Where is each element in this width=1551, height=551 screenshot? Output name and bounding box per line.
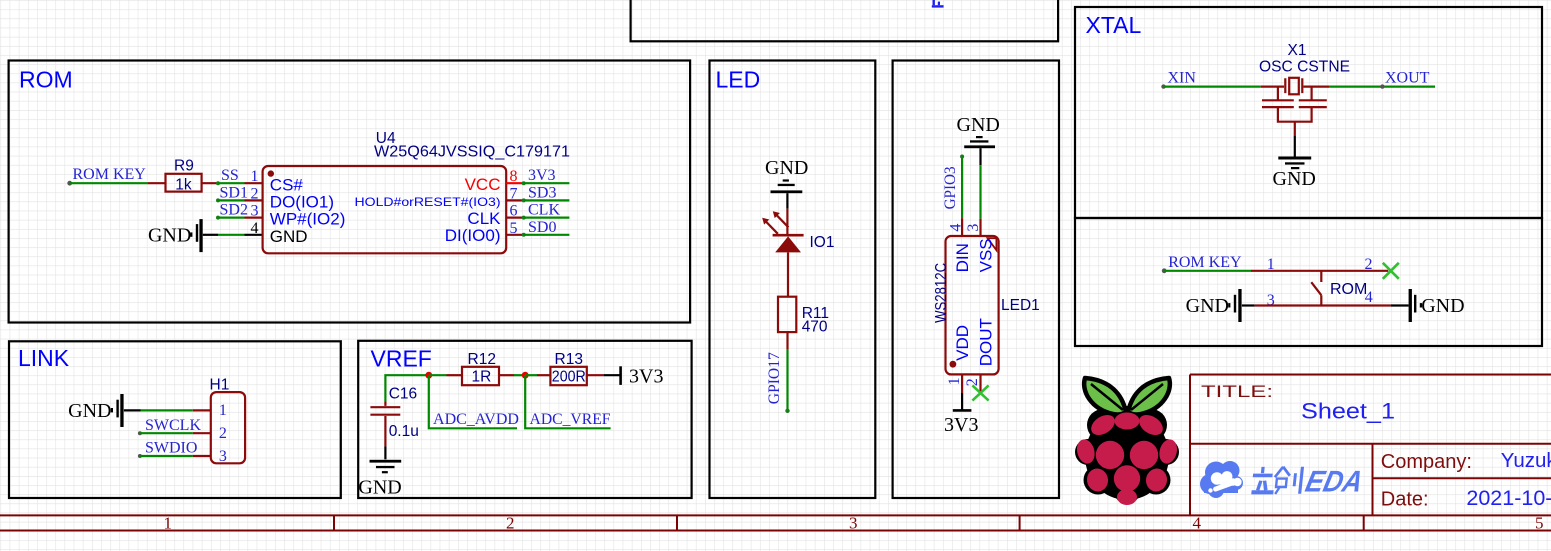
svg-text:VSS: VSS bbox=[977, 238, 996, 272]
wire switch pin1 (maroon) bbox=[1251, 270, 1388, 272]
pin 1 stub LED1 (bottom) bbox=[961, 374, 963, 393]
section box VREF bbox=[358, 341, 691, 498]
svg-text:ADC_VREF: ADC_VREF bbox=[530, 411, 611, 428]
section box XTAL bbox=[1075, 7, 1542, 218]
svg-text:C16: C16 bbox=[389, 385, 417, 402]
wire junction1 to R12 (green then red) bbox=[429, 374, 447, 376]
section box ROM KEY switch bbox=[1075, 218, 1542, 346]
wire junction2 to R13 bbox=[525, 374, 537, 376]
wire green-to-red segment into R9 bbox=[148, 182, 166, 184]
svg-text:WP#(IO2): WP#(IO2) bbox=[270, 210, 346, 229]
sheet frame bottom lines bbox=[0, 515, 1551, 530]
svg-text:4: 4 bbox=[1365, 289, 1373, 306]
section box ROM bbox=[9, 61, 691, 323]
wire LED to R11 bbox=[787, 252, 789, 296]
switch ROM bbox=[1311, 271, 1321, 306]
pin 1 stub U4 bbox=[245, 182, 263, 184]
wire GND to LED (maroon) bbox=[786, 209, 788, 235]
title block border bbox=[1190, 375, 1551, 516]
svg-text:R9: R9 bbox=[174, 157, 194, 174]
wire SD2 start dot bbox=[216, 216, 220, 220]
pin 8 stub U4 (red) bbox=[506, 182, 524, 184]
wire XOUT label dot bbox=[1380, 84, 1384, 88]
svg-text:Sheet_1: Sheet_1 bbox=[1301, 399, 1395, 424]
svg-text:GND: GND bbox=[358, 476, 401, 498]
sheet frame column ticks bbox=[334, 515, 1364, 530]
wire GPIO17 end dot bbox=[785, 409, 789, 413]
svg-text:2: 2 bbox=[219, 425, 227, 442]
ground GND (LINK box, pointing left) bbox=[68, 394, 123, 427]
wire CLK (green) bbox=[524, 217, 570, 219]
wire GND pin4 (green) bbox=[218, 234, 245, 236]
svg-text:5: 5 bbox=[1535, 513, 1544, 532]
resistor R13 bbox=[550, 367, 586, 385]
capacitor C16 stub (green to red) bbox=[384, 401, 386, 406]
svg-text:0.1u: 0.1u bbox=[389, 423, 419, 440]
svg-text:GND: GND bbox=[765, 157, 808, 179]
svg-text:GND: GND bbox=[957, 114, 1000, 136]
node SS junction dot bbox=[216, 181, 220, 185]
pin 2 stub H1 bbox=[193, 432, 211, 434]
ground GND (LED box, pointing up) bbox=[765, 157, 808, 193]
svg-text:W25Q64JVSSIQ_C179171: W25Q64JVSSIQ_C179171 bbox=[374, 143, 570, 160]
wire SWDIO (green) bbox=[140, 455, 193, 457]
svg-text:VREF: VREF bbox=[371, 345, 432, 371]
ground GND (switch box left, pointing left) bbox=[1186, 289, 1242, 322]
svg-text:1: 1 bbox=[946, 377, 963, 385]
wire junction1 down (green) bbox=[429, 375, 517, 428]
svg-text:CLK: CLK bbox=[467, 209, 501, 228]
pin 3 stub LED1 bbox=[979, 219, 981, 236]
svg-text:GND: GND bbox=[148, 224, 191, 246]
wire CLK start dot bbox=[522, 216, 526, 220]
resistor R12 bbox=[462, 367, 499, 385]
svg-text:H1: H1 bbox=[210, 377, 230, 394]
svg-text:GND: GND bbox=[1273, 168, 1316, 190]
wire XIN (green) bbox=[1164, 85, 1261, 87]
svg-text:SWCLK: SWCLK bbox=[145, 417, 201, 434]
net label F (vertical, cut off) bbox=[932, 0, 944, 8]
svg-text:SD2: SD2 bbox=[220, 202, 248, 219]
pin 6 stub U4 bbox=[506, 217, 524, 219]
wire R9 to SS node bbox=[202, 182, 218, 184]
svg-text:SS: SS bbox=[221, 167, 239, 184]
no-connect X on pin 2 bbox=[1383, 263, 1399, 279]
svg-text:R12: R12 bbox=[468, 351, 496, 368]
svg-text:X1: X1 bbox=[1288, 42, 1307, 59]
pin 5 stub U4 bbox=[506, 234, 524, 236]
svg-text:R13: R13 bbox=[555, 351, 583, 368]
LED IO1 symbol bbox=[762, 211, 803, 252]
svg-text:ROM: ROM bbox=[19, 66, 73, 92]
wire SD1 start dot bbox=[216, 198, 220, 202]
wire GND right (black) bbox=[1391, 304, 1409, 306]
svg-text:2: 2 bbox=[251, 185, 259, 202]
svg-text:ROM: ROM bbox=[1330, 281, 1367, 298]
svg-text:DOUT: DOUT bbox=[977, 318, 996, 366]
svg-text:5: 5 bbox=[510, 220, 518, 237]
svg-text:1: 1 bbox=[251, 168, 259, 185]
svg-text:470: 470 bbox=[802, 318, 828, 335]
wire GND stem (black) bbox=[979, 148, 981, 165]
wire switch pin3-4 (maroon) bbox=[1255, 304, 1391, 306]
wire 3V3 start dot bbox=[522, 181, 526, 185]
pin 3 stub U4 bbox=[245, 217, 263, 219]
section box LINK bbox=[9, 341, 341, 498]
svg-text:2021-10-14: 2021-10-14 bbox=[1466, 486, 1551, 510]
wire GND to VSS pin (green) bbox=[979, 165, 981, 219]
wire pin1 to 3V3 (black) bbox=[961, 393, 963, 410]
svg-text:XTAL: XTAL bbox=[1086, 12, 1142, 38]
wire GPIO3 (green) bbox=[961, 156, 963, 218]
svg-text:7: 7 bbox=[510, 185, 518, 202]
wire SD0 start dot bbox=[522, 233, 526, 237]
svg-text:3V3: 3V3 bbox=[528, 167, 556, 184]
svg-text:TITLE:: TITLE: bbox=[1201, 382, 1273, 401]
node junction dot 1 (red) bbox=[425, 372, 432, 379]
pin 7 stub U4 bbox=[506, 199, 524, 201]
svg-text:CLK: CLK bbox=[528, 202, 560, 219]
svg-text:DI(IO0): DI(IO0) bbox=[445, 226, 501, 245]
pin 2 stub LED1 (bottom) bbox=[979, 374, 981, 393]
wire SS (green) bbox=[218, 182, 245, 184]
no-connect X on pin 2 bbox=[972, 385, 988, 400]
resistor R11 bbox=[778, 297, 796, 332]
pin 1 stub H1 bbox=[193, 409, 211, 411]
svg-text:ROM KEY: ROM KEY bbox=[1168, 254, 1242, 271]
svg-text:4: 4 bbox=[948, 224, 965, 232]
wire GPIO3 top dot bbox=[960, 155, 964, 159]
wire SD1 (green) bbox=[218, 199, 245, 201]
svg-text:1k: 1k bbox=[175, 176, 192, 193]
svg-text:GND: GND bbox=[270, 227, 308, 246]
pin 2 stub U4 bbox=[245, 199, 263, 201]
wire ROM KEY (green) bbox=[1164, 270, 1251, 272]
node junction dot 2 (red) bbox=[522, 372, 529, 379]
resistor R9 bbox=[166, 174, 202, 192]
svg-text:EDA: EDA bbox=[1302, 465, 1366, 499]
section box LED bbox=[710, 61, 876, 499]
svg-text:VCC: VCC bbox=[465, 175, 501, 194]
logo LCEDA (立创EDA) bbox=[1200, 461, 1366, 498]
svg-text:1R: 1R bbox=[472, 369, 492, 386]
svg-text:GND: GND bbox=[1421, 295, 1464, 317]
svg-text:SD1: SD1 bbox=[220, 184, 248, 201]
svg-text:2: 2 bbox=[1365, 256, 1373, 273]
pin 3 stub H1 bbox=[193, 455, 211, 457]
wire VREF input corner (green) bbox=[385, 375, 428, 401]
wire H1 pin1 (green) bbox=[141, 409, 193, 411]
wire XOUT (green) bbox=[1329, 85, 1435, 87]
svg-text:LED1: LED1 bbox=[1001, 297, 1040, 314]
wire SWCLK start dot bbox=[138, 431, 142, 435]
power bar 3V3 (WS2812) bbox=[953, 409, 972, 412]
wire GPIO17 (green) bbox=[786, 349, 788, 410]
svg-text:ROM KEY: ROM KEY bbox=[73, 166, 147, 183]
svg-text:Yuzuki: Yuzuki bbox=[1501, 449, 1551, 472]
ground GND (XTAL box, pointing down) bbox=[1273, 157, 1316, 190]
svg-text:3: 3 bbox=[219, 448, 227, 465]
wire crystal to GND (black) bbox=[1294, 136, 1296, 157]
svg-text:3V3: 3V3 bbox=[944, 414, 978, 436]
wire ROM KEY to R9 (green) bbox=[70, 182, 148, 184]
wire R11 down (maroon) bbox=[786, 332, 788, 349]
wire SD2 (green) bbox=[218, 217, 245, 219]
pin 4 stub U4 (black) bbox=[245, 234, 263, 236]
wire R13 to 3V3 bar bbox=[587, 374, 604, 376]
svg-text:LINK: LINK bbox=[18, 345, 70, 371]
wire GND to pin4 (black) bbox=[203, 234, 218, 236]
svg-text:3: 3 bbox=[251, 203, 259, 220]
wire SD3 start dot bbox=[522, 198, 526, 202]
wire SD3 (green) bbox=[524, 199, 570, 201]
svg-text:1: 1 bbox=[164, 513, 173, 532]
wire ROM KEY start dot bbox=[67, 181, 72, 186]
svg-text:HOLD#orRESET#(IO3): HOLD#orRESET#(IO3) bbox=[355, 195, 501, 209]
pin 4 stub LED1 bbox=[961, 218, 963, 236]
wire C16 to GND bbox=[384, 416, 386, 446]
wire ROM KEY start dot bbox=[1162, 268, 1167, 273]
svg-text:3: 3 bbox=[965, 224, 982, 232]
corner marker triangle bbox=[988, 238, 997, 250]
svg-text:SWDIO: SWDIO bbox=[145, 440, 197, 457]
svg-text:ADC_AVDD: ADC_AVDD bbox=[433, 411, 519, 428]
crystal X1 OSC CSTNE bbox=[1261, 78, 1330, 136]
svg-text:200R: 200R bbox=[552, 369, 586, 386]
capacitor C16 bbox=[370, 407, 400, 415]
svg-text:DIN: DIN bbox=[953, 243, 972, 272]
svg-text:SD3: SD3 bbox=[528, 184, 556, 201]
svg-text:Date:: Date: bbox=[1381, 489, 1429, 511]
svg-text:3: 3 bbox=[849, 513, 858, 532]
svg-text:Company:: Company: bbox=[1381, 451, 1472, 473]
svg-text:GND: GND bbox=[68, 400, 111, 422]
wire GND stem (black) bbox=[786, 193, 788, 209]
svg-text:WS2812C: WS2812C bbox=[933, 263, 950, 323]
ground GND (WS2812 box, pointing up) bbox=[957, 114, 1000, 148]
svg-text:4: 4 bbox=[1193, 513, 1202, 532]
IC LED1 WS2812C body bbox=[946, 236, 999, 374]
svg-text:6: 6 bbox=[510, 203, 518, 220]
svg-text:LED: LED bbox=[716, 66, 761, 92]
svg-text:1: 1 bbox=[219, 402, 227, 419]
IC U4 body bbox=[263, 166, 507, 253]
svg-text:4: 4 bbox=[251, 220, 259, 237]
svg-text:XOUT: XOUT bbox=[1385, 70, 1430, 87]
logo Raspberry Pi bbox=[1074, 378, 1179, 505]
section box WS2812 bbox=[893, 61, 1059, 499]
svg-text:OSC CSTNE: OSC CSTNE bbox=[1259, 58, 1350, 75]
wire 3V3 (green) bbox=[524, 182, 570, 184]
pin 1 marker dot U4 bbox=[268, 170, 274, 176]
wire SD0 (green) bbox=[524, 234, 570, 236]
svg-text:3V3: 3V3 bbox=[629, 366, 663, 388]
section box FLASH (top, cut off) bbox=[631, 0, 1059, 41]
svg-text:GPIO3: GPIO3 bbox=[942, 166, 959, 209]
wire GND to H1 pin1 (black) bbox=[124, 409, 141, 411]
svg-text:2: 2 bbox=[506, 513, 515, 532]
wire SWDIO start dot bbox=[138, 454, 142, 458]
svg-text:DO(IO1): DO(IO1) bbox=[270, 193, 334, 212]
svg-text:GPIO17: GPIO17 bbox=[766, 352, 783, 404]
svg-text:8: 8 bbox=[510, 168, 518, 185]
svg-text:CS#: CS# bbox=[270, 175, 304, 194]
pin 1 marker dot LED1 bbox=[950, 361, 957, 368]
svg-text:GND: GND bbox=[1186, 295, 1229, 317]
svg-text:2: 2 bbox=[964, 378, 981, 386]
wire XIN start dot bbox=[1161, 84, 1165, 88]
svg-text:XIN: XIN bbox=[1168, 70, 1197, 87]
ground GND (ROM box, pointing left) bbox=[148, 219, 203, 252]
svg-text:SD0: SD0 bbox=[528, 219, 556, 236]
ground GND (VREF box, pointing down) bbox=[358, 460, 401, 499]
power bar 3V3 (VREF) bbox=[619, 366, 622, 385]
wire R12 to junction2 bbox=[499, 374, 514, 376]
svg-text:1: 1 bbox=[1267, 256, 1275, 273]
ground GND (switch box right, pointing right) bbox=[1409, 289, 1465, 322]
svg-text:IO1: IO1 bbox=[810, 234, 835, 251]
wire junction2 down (green) bbox=[525, 375, 610, 428]
svg-text:VDD: VDD bbox=[953, 325, 972, 361]
connector H1 body bbox=[211, 392, 245, 463]
wire GND left (black) bbox=[1242, 304, 1255, 306]
wire SWCLK (green) bbox=[140, 432, 193, 434]
